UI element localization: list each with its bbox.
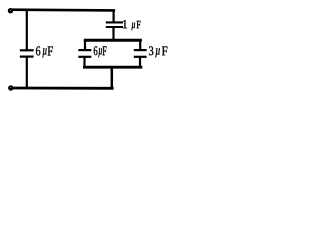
node a: top-left terminal dot xyxy=(8,8,13,13)
capacitor C2 1uF: top plate xyxy=(106,21,123,23)
label C2 unit F xyxy=(137,21,141,28)
capacitor C4 3uF (right branch): bottom plate xyxy=(134,56,147,58)
background xyxy=(0,0,174,95)
wire: C2 branch upper lead from top wire xyxy=(112,10,114,23)
wire: top horizontal from terminal a to corner above C2 xyxy=(11,8,116,11)
wire: left branch upper lead xyxy=(26,9,28,50)
label C2 unit mu xyxy=(131,23,135,31)
capacitor C4 3uF (right branch): top plate xyxy=(134,49,147,51)
wire: left branch lower lead xyxy=(26,57,28,89)
capacitor C3 6uF (middle branch): bottom plate xyxy=(78,56,91,58)
wire: middle branch lower lead xyxy=(83,57,85,67)
label C3 value digit 6 (middle) xyxy=(94,46,98,55)
wire: center tap from bottom rail down to bottom wire xyxy=(111,67,114,88)
label C4 value digit 3 xyxy=(149,46,153,55)
label C1 unit mu (left) xyxy=(42,48,46,57)
node b: bottom-left terminal dot xyxy=(8,85,13,90)
label C1 value digit 6 (left) xyxy=(36,46,40,55)
label C1 unit F (left) xyxy=(48,47,53,56)
capacitor C1 6uF (left branch): bottom plate xyxy=(20,55,34,57)
wire: parallel block top rail xyxy=(84,39,142,42)
capacitor C3 6uF (middle branch): top plate xyxy=(78,49,91,51)
label C2 value digit 1 xyxy=(123,20,127,28)
wire: right branch upper lead xyxy=(139,40,141,50)
label C4 unit F xyxy=(162,47,167,56)
capacitor C2 1uF: bottom plate xyxy=(106,26,123,28)
label C3 unit F (middle) xyxy=(102,46,106,55)
wire: parallel block bottom rail xyxy=(83,66,142,69)
wire: right branch lower lead xyxy=(139,57,141,67)
label C4 unit mu xyxy=(155,48,159,57)
capacitor C1 6uF (left branch): top plate xyxy=(20,49,34,51)
wire: bottom horizontal from terminal b to corner below tap xyxy=(11,87,114,90)
wire: middle branch upper lead xyxy=(84,40,86,50)
wire: C2 lower lead down to parallel block top rail xyxy=(112,27,114,40)
label C3 unit mu (middle) xyxy=(98,48,102,57)
